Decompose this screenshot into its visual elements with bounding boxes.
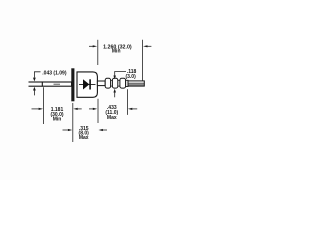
svg-text:(3.0): (3.0) [125, 74, 136, 80]
svg-text:Max: Max [79, 135, 89, 141]
svg-text:Max: Max [107, 115, 117, 121]
svg-text:.043 (1.09): .043 (1.09) [42, 71, 67, 77]
svg-text:Min: Min [112, 48, 121, 54]
svg-text:Min: Min [53, 117, 62, 123]
